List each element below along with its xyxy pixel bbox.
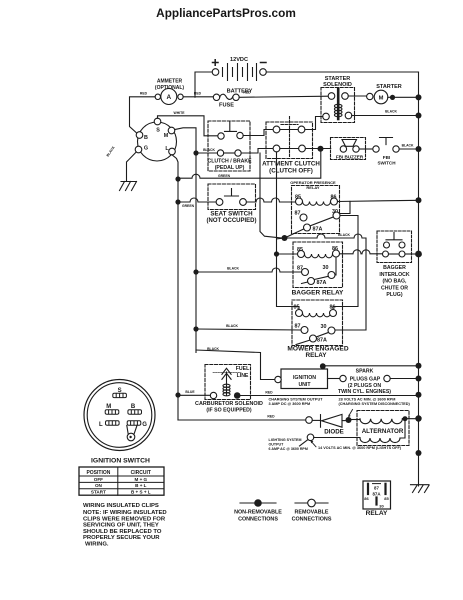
svg-text:87A: 87A — [317, 338, 327, 344]
wire M-rail black to clutch/brake — [196, 152, 217, 154]
ground left — [120, 182, 137, 191]
svg-text:BLACK: BLACK — [207, 347, 219, 351]
svg-text:87: 87 — [295, 323, 301, 329]
right ground rail — [418, 72, 420, 486]
svg-text:OUTPUT: OUTPUT — [269, 442, 285, 446]
svg-text:BAGGER RELAY: BAGGER RELAY — [292, 289, 344, 296]
wire battery - to right rail — [266, 71, 418, 73]
wire attachment top-right to solenoid — [305, 117, 323, 130]
wire key L down rail — [172, 155, 178, 420]
node kill junction — [318, 146, 324, 152]
diode D1 — [312, 414, 345, 435]
svg-text:STARTER: STARTER — [376, 84, 402, 90]
svg-text:(IF SO EQUIPPED): (IF SO EQUIPPED) — [206, 408, 252, 414]
svg-text:M: M — [164, 133, 169, 139]
svg-text:BLUE: BLUE — [185, 390, 195, 394]
svg-text:BAGGER: BAGGER — [383, 265, 406, 271]
legend non-removable connections — [234, 499, 282, 522]
node diode-alternator — [346, 417, 352, 423]
svg-text:AppliancePartsPros.com: AppliancePartsPros.com — [156, 6, 296, 20]
svg-text:PLUGS GAP: PLUGS GAP — [350, 376, 381, 382]
svg-text:WHITE: WHITE — [174, 111, 186, 115]
fuel line / carburetor solenoid — [195, 365, 263, 414]
wire key M down rail — [175, 128, 196, 353]
svg-text:L: L — [99, 422, 103, 428]
svg-text:87A: 87A — [372, 491, 381, 496]
wire key S white to clutch/brake — [158, 116, 218, 136]
wire key G to ground — [127, 152, 137, 181]
bagger interlock — [377, 231, 419, 298]
clutch/brake switch (pedal up) — [207, 121, 252, 171]
svg-text:PROPERLY SECURE YOUR: PROPERLY SECURE YOUR — [83, 535, 160, 541]
wire M-rail to ignition unit — [196, 350, 275, 380]
svg-text:28 VOLTS AC MIN. @ 3600 RPM: 28 VOLTS AC MIN. @ 3600 RPM — [339, 398, 396, 402]
ignition switch pictorial — [84, 380, 155, 465]
svg-text:G: G — [142, 422, 147, 428]
mower engaged relay — [287, 300, 348, 359]
svg-text:12VDC: 12VDC — [230, 57, 248, 63]
svg-text:GREEN: GREEN — [218, 174, 231, 178]
wire op 86 to 30 and to rail — [338, 200, 419, 201]
wire blue to carb — [178, 394, 210, 396]
alternator — [352, 411, 419, 446]
key hole — [127, 433, 135, 441]
svg-text:M: M — [379, 95, 384, 101]
operator presence relay — [285, 180, 341, 238]
svg-text:CARBURETOR SOLENOID: CARBURETOR SOLENOID — [195, 401, 263, 407]
svg-text:RELAY: RELAY — [366, 510, 388, 517]
svg-text:(PEDAL UP): (PEDAL UP) — [215, 165, 245, 171]
node carb out — [234, 392, 241, 399]
svg-text:INTERLOCK: INTERLOCK — [379, 272, 410, 278]
svg-text:30: 30 — [379, 504, 384, 509]
green wire 1 upper — [175, 176, 180, 181]
svg-text:SERVICING OF UNIT, THEY: SERVICING OF UNIT, THEY — [83, 523, 159, 529]
svg-text:IGNITION SWITCH: IGNITION SWITCH — [91, 457, 150, 464]
wire black op lever to mower 30 — [285, 234, 367, 330]
svg-text:FBI BUZZER: FBI BUZZER — [336, 154, 364, 159]
svg-text:BLACK: BLACK — [226, 324, 238, 328]
starter motor M — [348, 84, 418, 104]
svg-text:CONNECTIONS: CONNECTIONS — [238, 516, 278, 522]
svg-text:87A: 87A — [313, 227, 323, 233]
svg-text:WIRING INSULATED CLIPS: WIRING INSULATED CLIPS — [83, 503, 159, 509]
svg-text:BLACK: BLACK — [227, 266, 239, 270]
svg-text:CLUTCH / BRAKE: CLUTCH / BRAKE — [207, 159, 252, 165]
wire clutch/brake bottom to attachment clutch bottom — [241, 149, 273, 154]
svg-text:(NO BAG,: (NO BAG, — [383, 279, 407, 285]
svg-text:6 AMP AC @ 3600 RPM: 6 AMP AC @ 3600 RPM — [269, 447, 308, 451]
svg-text:CHARGING SYSTEM OUTPUT: CHARGING SYSTEM OUTPUT — [269, 398, 324, 402]
svg-text:B + S + L: B + S + L — [131, 490, 151, 495]
svg-text:SPARK: SPARK — [356, 369, 374, 375]
svg-text:PLUG): PLUG) — [386, 292, 402, 298]
svg-text:RED: RED — [140, 92, 148, 96]
svg-text:14 VOLTS AC MIN. @ 3600 RPM (L: 14 VOLTS AC MIN. @ 3600 RPM (LIGHTS OFF) — [318, 446, 402, 450]
svg-text:(NOT OCCUPIED): (NOT OCCUPIED) — [207, 218, 257, 224]
svg-text:RELAY: RELAY — [305, 352, 327, 359]
svg-text:CONNECTIONS: CONNECTIONS — [292, 516, 332, 522]
wire red charging to rail — [238, 395, 419, 397]
relay pin legend — [363, 481, 391, 517]
svg-text:LIGHTING SYSTEM: LIGHTING SYSTEM — [269, 438, 302, 442]
svg-text:RED: RED — [267, 414, 275, 418]
svg-text:87A: 87A — [317, 280, 327, 286]
wire M-rail black to mower 87 — [196, 329, 301, 330]
starter solenoid — [321, 76, 355, 123]
battery B1 12VDC — [212, 57, 266, 94]
removable connection — [306, 417, 313, 424]
svg-text:POSITION: POSITION — [86, 470, 110, 476]
wire ammeter to fuse — [183, 96, 213, 98]
lighting output circle — [307, 434, 314, 441]
svg-text:B + L: B + L — [135, 483, 147, 488]
svg-text:AMMETER: AMMETER — [157, 79, 183, 85]
node bagger 85 feed — [274, 251, 279, 256]
svg-text:RED: RED — [243, 91, 251, 95]
svg-text:CIRCUIT: CIRCUIT — [131, 470, 151, 476]
svg-text:RED: RED — [265, 390, 273, 394]
wire op 30 down to mower 86 — [333, 216, 358, 310]
wire red to diode row — [178, 419, 306, 421]
svg-text:FUSE: FUSE — [219, 103, 234, 109]
svg-text:ALTERNATOR: ALTERNATOR — [362, 428, 404, 435]
svg-text:BLACK: BLACK — [338, 233, 350, 237]
ignition switch table — [79, 467, 164, 495]
ignition unit — [275, 369, 328, 389]
svg-text:START: START — [91, 490, 106, 495]
svg-text:CLIPS WERE REMOVED FOR: CLIPS WERE REMOVED FOR — [83, 516, 166, 522]
svg-text:REMOVABLE: REMOVABLE — [294, 510, 328, 516]
svg-text:TWIN CYL. ENGINES): TWIN CYL. ENGINES) — [338, 389, 391, 395]
svg-text:FBI: FBI — [383, 155, 390, 160]
svg-text:86: 86 — [364, 496, 369, 501]
svg-text:BLACK: BLACK — [402, 144, 414, 148]
vertical from clutch jog down to lever node — [260, 153, 282, 238]
svg-text:87: 87 — [295, 211, 301, 217]
spark plugs gap — [328, 369, 419, 395]
svg-text:(CHARGING SYSTEM DISCONNECTED): (CHARGING SYSTEM DISCONNECTED) — [339, 402, 411, 406]
svg-text:SWITCH: SWITCH — [377, 161, 396, 166]
svg-text:FUEL: FUEL — [236, 366, 250, 372]
svg-text:G: G — [144, 146, 148, 152]
svg-text:IGNITION: IGNITION — [293, 375, 316, 381]
fuse F1 — [213, 94, 239, 108]
wire battery + to ammeter/fuse node — [195, 72, 212, 97]
attachment clutch (clutch off) — [262, 117, 320, 175]
FBI switch — [359, 138, 418, 166]
legend removable connections — [292, 499, 332, 522]
FBI buzzer — [331, 138, 366, 160]
svg-text:BLACK: BLACK — [203, 148, 215, 152]
node starter to rail — [416, 94, 422, 100]
svg-text:30: 30 — [321, 324, 327, 330]
svg-text:GREEN: GREEN — [182, 204, 195, 208]
wire FBI node down to green wire — [178, 152, 321, 178]
node ignition top — [320, 363, 326, 369]
svg-text:DIODE: DIODE — [324, 429, 344, 436]
svg-text:UNIT: UNIT — [298, 382, 311, 388]
svg-text:CHUTE OR: CHUTE OR — [381, 285, 408, 291]
ground right — [411, 485, 430, 493]
svg-text:LINE: LINE — [237, 373, 249, 379]
svg-text:B: B — [144, 135, 148, 141]
wire M-rail black to bagger 87 — [196, 268, 302, 272]
svg-text:B: B — [131, 404, 136, 410]
wire ignition top to rail — [323, 365, 419, 367]
node op lever junction — [282, 235, 288, 241]
svg-text:NOTE: IF WIRING INSULATED: NOTE: IF WIRING INSULATED — [83, 510, 167, 516]
svg-text:M: M — [106, 404, 111, 410]
wire fuse to starter solenoid — [239, 96, 328, 97]
bagger relay — [292, 242, 344, 296]
svg-text:S: S — [156, 128, 160, 134]
green wire 2 to seat switch and op relay 85 — [178, 198, 216, 202]
svg-text:WIRING.: WIRING. — [85, 542, 109, 548]
svg-text:87: 87 — [374, 485, 379, 490]
svg-text:M + G: M + G — [134, 477, 147, 482]
wire attachment bottom-right to FBI node — [305, 148, 330, 150]
wire solenoid black to rail — [352, 115, 419, 117]
svg-text:SEAT SWITCH: SEAT SWITCH — [210, 211, 253, 218]
svg-text:SHOULD BE REPLACED TO: SHOULD BE REPLACED TO — [83, 529, 162, 535]
svg-text:A: A — [166, 94, 171, 101]
svg-text:BLACK: BLACK — [106, 145, 116, 157]
svg-text:NON-REMOVABLE: NON-REMOVABLE — [234, 510, 282, 516]
svg-text:30: 30 — [323, 265, 329, 271]
svg-text:RED: RED — [194, 92, 202, 96]
svg-text:OFF: OFF — [94, 477, 103, 482]
svg-text:3 AMP DC @ 3600 RPM: 3 AMP DC @ 3600 RPM — [269, 402, 311, 406]
vertical attachment-BL down (feeds relays 85) — [277, 152, 300, 310]
wire ammeter to key B — [130, 97, 156, 134]
wire clutch/brake top to attachment clutch top — [243, 130, 273, 136]
svg-text:85: 85 — [384, 496, 389, 501]
key switch (in circuit) — [135, 118, 176, 161]
seat switch (not occupied) — [207, 184, 257, 224]
wiring note — [83, 503, 167, 548]
svg-text:(CLUTCH OFF): (CLUTCH OFF) — [269, 167, 313, 174]
svg-text:ON: ON — [95, 483, 103, 488]
ammeter A (optional) — [155, 79, 184, 105]
svg-text:BLACK: BLACK — [385, 110, 397, 114]
wire bagger 86 to interlock — [340, 250, 383, 254]
